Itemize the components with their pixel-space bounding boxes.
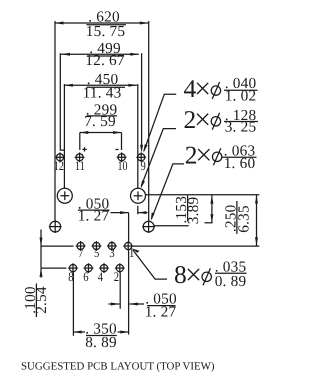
mounting hole left (0.128) xyxy=(57,188,72,203)
svg-text:10: 10 xyxy=(118,158,128,173)
svg-text:4: 4 xyxy=(98,269,104,284)
wire drop to pad 11 xyxy=(79,133,81,151)
pad 2 xyxy=(115,263,125,273)
extension line right of .450 (down to right mounting hole) xyxy=(137,84,139,188)
diameter symbol xyxy=(212,152,221,161)
polarity minus mark near pad 10 xyxy=(115,149,118,151)
extension line to pad 8 row xyxy=(41,267,67,269)
svg-text:9: 9 xyxy=(141,158,146,173)
diameter symbol xyxy=(202,272,211,281)
svg-text:2.54: 2.54 xyxy=(33,286,50,314)
leader to pad 9 xyxy=(144,94,176,151)
svg-text:3.89: 3.89 xyxy=(185,196,202,224)
svg-text:1: 1 xyxy=(129,245,134,260)
svg-text:1. 60: 1. 60 xyxy=(224,155,256,172)
svg-text:6.35: 6.35 xyxy=(235,205,252,233)
dimension .250/6.35 (rotated) xyxy=(222,195,258,246)
pad 9 xyxy=(136,152,146,162)
spacer hole left (0.063) xyxy=(49,220,62,233)
extension line from pad 1 column (upper .050) xyxy=(128,213,130,243)
dimension .153/3.89 (rotated) xyxy=(173,195,213,224)
extension line left of .620 (to left spacer hole) xyxy=(54,21,56,221)
dimension .450/11.43 xyxy=(64,71,136,101)
svg-text:0. 89: 0. 89 xyxy=(215,273,247,290)
leader to pad 1 xyxy=(133,250,167,279)
mounting hole right (0.128) xyxy=(131,188,146,203)
pad 11 xyxy=(75,152,85,162)
svg-text:12: 12 xyxy=(54,158,64,173)
polarity plus mark near pad 11 xyxy=(82,147,86,151)
spacer hole right (0.063) xyxy=(142,220,155,233)
svg-text:5: 5 xyxy=(94,245,99,260)
dimension .050/1.27 upper xyxy=(78,196,148,225)
extension line pad 2 column (bottom .050) xyxy=(119,272,121,309)
pad 7 xyxy=(76,241,86,251)
reference line from right spacer hole xyxy=(154,225,189,227)
pad 8 xyxy=(68,263,78,273)
dimension .100/2.54 (rotated, left) xyxy=(22,230,50,318)
svg-text:1. 27: 1. 27 xyxy=(145,304,177,321)
extension line pad 1 column (bottom) xyxy=(128,250,130,335)
label 4x 0.040/1.02 xyxy=(143,74,257,153)
dimension .299/7.59 xyxy=(80,102,122,151)
label 2x 0.063/1.60 xyxy=(151,140,257,221)
pad 6 xyxy=(84,263,94,273)
svg-text:7. 59: 7. 59 xyxy=(84,113,116,130)
diameter symbol xyxy=(211,86,220,95)
svg-text:8: 8 xyxy=(174,260,187,289)
svg-text:1. 27: 1. 27 xyxy=(78,208,110,225)
svg-text:11: 11 xyxy=(75,158,85,173)
svg-text:7: 7 xyxy=(78,245,84,260)
svg-text:6: 6 xyxy=(83,269,89,284)
extension line to pad 7 row xyxy=(41,245,74,247)
label 8x 0.035/0.89 xyxy=(132,248,247,290)
svg-text:1. 02: 1. 02 xyxy=(225,87,257,104)
reference line from pad 1 row xyxy=(132,245,259,247)
pad 5 xyxy=(92,241,102,251)
pad 4 xyxy=(99,263,109,273)
dimension .499/12.67 xyxy=(60,40,138,69)
pad 12 xyxy=(55,152,65,162)
diameter symbol xyxy=(211,117,220,126)
svg-text:15. 75: 15. 75 xyxy=(86,23,126,40)
svg-text:4: 4 xyxy=(184,74,197,103)
dimension .350/8.89 xyxy=(73,272,129,351)
pad 10 xyxy=(117,152,127,162)
extension line left of .450 (down to left mounting hole) xyxy=(63,84,65,188)
extension line left of .499 (down to pad 12, jogs to .450 line) xyxy=(60,53,64,150)
svg-text:3. 25: 3. 25 xyxy=(225,119,257,136)
pad 1 xyxy=(123,241,133,251)
leader to right spacer hole xyxy=(152,164,185,219)
svg-text:2: 2 xyxy=(114,269,119,284)
extension tick below right mounting hole xyxy=(137,206,139,214)
svg-text:8. 89: 8. 89 xyxy=(85,334,117,351)
svg-text:12. 67: 12. 67 xyxy=(85,52,125,69)
svg-text:SUGGESTED PCB LAYOUT (TOP VIEW: SUGGESTED PCB LAYOUT (TOP VIEW) xyxy=(21,361,215,373)
pad 3 xyxy=(107,241,117,251)
dimension .050/1.27 lower xyxy=(109,291,177,321)
leader to right mounting hole xyxy=(141,129,176,186)
svg-text:3: 3 xyxy=(109,245,114,260)
left extension (pad 8 column) xyxy=(72,272,74,336)
reference line from right mounting hole xyxy=(146,194,260,196)
extension line right of .499 (arrow onto pad 9) xyxy=(141,53,143,146)
dimension .620/15.75 xyxy=(55,8,148,40)
wire drop to pad 10 xyxy=(121,133,123,151)
svg-text:2: 2 xyxy=(184,105,197,134)
label 2x 0.128/3.25 xyxy=(141,105,258,189)
svg-text:2: 2 xyxy=(185,140,198,169)
svg-text:11. 43: 11. 43 xyxy=(83,84,122,101)
extension line right of .620 (to right spacer hole) xyxy=(148,21,150,221)
